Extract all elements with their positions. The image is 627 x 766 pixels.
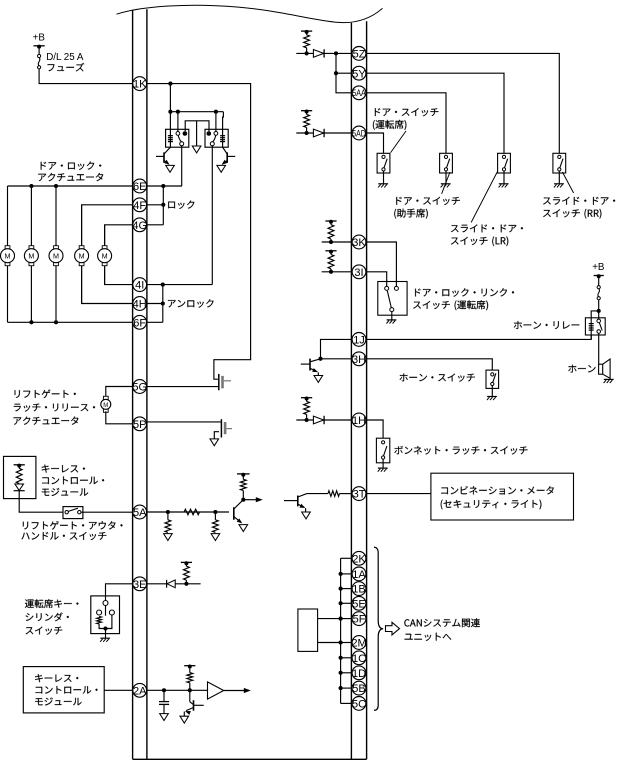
svg-text:5AA: 5AA xyxy=(352,88,366,98)
wire 5Z-5Y-5AA link xyxy=(336,53,352,92)
svg-text:6F: 6F xyxy=(133,317,146,329)
wire 5Y to slide door switch LR xyxy=(366,73,504,153)
wire center output of relays xyxy=(196,121,198,146)
switch S9 (bonnet latch) box xyxy=(376,438,389,463)
label (セキュリティ・ライト) xyxy=(441,500,542,510)
relay K2 contact open xyxy=(214,132,218,136)
relay K1 lever xyxy=(178,136,181,142)
connector 5P xyxy=(133,417,147,431)
motor M6 (liftgate latch release actuator) xyxy=(101,396,111,412)
motor M4 (door lock actuator) xyxy=(75,246,89,266)
motor M2 (door lock actuator) xyxy=(24,246,38,266)
diode D1 (in keyless box) xyxy=(14,484,25,491)
junction 5A at R4 xyxy=(213,510,217,514)
svg-text:M: M xyxy=(102,251,108,260)
switch S9 terminal bottom xyxy=(382,456,385,459)
wire 5AD to door switch driver xyxy=(366,133,383,153)
wire Q4 gate to ground xyxy=(214,432,219,439)
junction 4H link xyxy=(161,301,165,305)
junction relay rail at contact K1 xyxy=(176,110,180,114)
wire stub to 5C xyxy=(341,702,352,704)
wire to motor M3 top xyxy=(55,186,57,246)
label ドア・ロック・リンク・ xyxy=(415,288,514,296)
wire rail to K2 coil xyxy=(222,112,225,148)
svg-text:3K: 3K xyxy=(352,237,366,249)
svg-text:5Z: 5Z xyxy=(353,49,366,61)
junction CAN at 5E xyxy=(339,601,343,605)
resistor+diode network at 5AD xyxy=(296,110,351,138)
label スイッチ (key cyl) xyxy=(26,627,63,635)
label コンビネーション・メータ xyxy=(441,486,554,494)
motor M5 (door lock actuator) xyxy=(98,246,112,266)
transistor Q1 (relay K1 driver) xyxy=(156,147,170,165)
ground arrow below Q5 xyxy=(239,525,248,532)
wire 3E to key cylinder switch xyxy=(106,584,133,601)
svg-text:+B: +B xyxy=(592,262,605,273)
ground arrow below Q4 gate xyxy=(210,439,219,446)
module bottom edge xyxy=(133,758,367,760)
svg-text:2A: 2A xyxy=(133,685,147,697)
relay K3 coil xyxy=(589,322,594,340)
wire horn feed to coil xyxy=(591,311,599,322)
power terminal in keyless box xyxy=(14,464,25,468)
connector 1C xyxy=(352,651,366,665)
connector 3H xyxy=(352,352,366,366)
wire 4G row left xyxy=(105,225,133,245)
wire 4H row right xyxy=(147,303,163,305)
wire 5Z to slide door switch RR xyxy=(366,53,559,153)
horn speaker SP1 xyxy=(599,359,611,378)
switch S5 (slide door switch LR) xyxy=(498,153,511,187)
wire relay second rail xyxy=(185,121,209,132)
wire rail to K2 contact xyxy=(215,112,217,132)
ground arrow below Q6 xyxy=(180,716,189,723)
chassis ground below S8 xyxy=(487,397,497,401)
junction CAN at 1A xyxy=(339,572,343,576)
transistor Q3 (5G driver FET) xyxy=(219,374,231,390)
connector 5Y xyxy=(352,66,366,80)
wire relay K2 output to 4I xyxy=(211,146,213,285)
wire 4H row left xyxy=(82,266,133,303)
svg-text:4H: 4H xyxy=(133,299,147,311)
ground arrow below Q1 xyxy=(166,165,175,172)
relay K1 common terminal xyxy=(180,142,184,146)
svg-text:M: M xyxy=(53,251,59,260)
svg-text:5A: 5A xyxy=(133,507,147,519)
wire stub to 5F xyxy=(341,618,352,620)
label ホーン・スイッチ xyxy=(400,374,475,382)
wire stub to 2M xyxy=(341,642,352,644)
label ハンドル・スイッチ xyxy=(21,532,106,540)
resistor R3 (5A series) xyxy=(184,509,199,515)
connector 2K xyxy=(352,551,366,565)
svg-text:1C: 1C xyxy=(352,653,366,665)
relay K1 coil xyxy=(168,136,173,142)
switch S4 (door switch passenger) xyxy=(440,153,453,187)
wire 2A row right xyxy=(147,689,208,691)
wire stub to 1A xyxy=(341,573,352,575)
label ロック xyxy=(168,201,194,209)
label CANシステム関連 xyxy=(404,618,480,627)
label コントロール・ (lower box) xyxy=(36,686,98,694)
label アンロック xyxy=(168,299,214,307)
label ドア・スイッチ (passenger) xyxy=(396,197,460,205)
resistor R4 (5A pulldown 2) xyxy=(213,512,219,532)
right module bus bar (right line) xyxy=(366,21,368,759)
junction 4I right branch xyxy=(161,283,165,287)
wire motor M4 bottom xyxy=(81,266,83,304)
connector 6E xyxy=(133,179,147,193)
relay K1 box xyxy=(166,129,189,147)
switch S2 terminal left xyxy=(97,610,102,615)
label ドア・スイッチ (driver) xyxy=(375,108,439,116)
label ドア・ロック・ xyxy=(41,162,102,170)
power terminal above R8 xyxy=(184,665,195,669)
connector 4F xyxy=(133,198,147,212)
motor M3 (door lock actuator) xyxy=(49,246,63,266)
right module bus bar (left line) xyxy=(350,23,352,760)
ground arrow below R2 xyxy=(164,534,173,541)
svg-text:3H: 3H xyxy=(352,354,366,366)
label ラッチ・リリース・ xyxy=(14,404,95,412)
connector 1A xyxy=(352,567,366,581)
junction relay rail at contact K2 xyxy=(214,110,218,114)
connector 1D xyxy=(352,666,366,680)
svg-text:5AD: 5AD xyxy=(352,128,366,138)
wire 4F row left xyxy=(82,205,133,245)
label スライド・ドア・ (LR) xyxy=(451,224,523,232)
svg-text:3I: 3I xyxy=(354,267,363,279)
wire horn fuse to relay xyxy=(598,300,600,319)
switch S8 terminal bottom xyxy=(491,382,494,385)
svg-text:M: M xyxy=(103,403,108,409)
resistor R2 (5A pulldown) xyxy=(165,512,171,532)
wire 4I row right xyxy=(147,284,213,286)
label アクチュエータ (liftgate) xyxy=(14,417,79,425)
svg-text:4I: 4I xyxy=(135,280,144,292)
relay K3 lever xyxy=(599,323,602,331)
svg-text:2K: 2K xyxy=(352,553,366,565)
svg-text:5B: 5B xyxy=(352,683,365,695)
power terminal above R7 xyxy=(181,561,192,565)
wire 5AA to door switch front xyxy=(366,93,446,154)
junction link at 5Z xyxy=(334,51,338,55)
label (助手席) xyxy=(394,209,428,219)
wire +B to fuse xyxy=(38,46,40,55)
wire S2 right leg xyxy=(106,615,112,629)
transistor Q4 (5P driver FET) xyxy=(221,419,232,437)
switch S8 lever xyxy=(493,373,496,382)
svg-text:5C: 5C xyxy=(352,699,366,711)
wire S7 to chassis ground xyxy=(391,312,393,320)
pointer line to S3 xyxy=(391,131,406,153)
power terminal above R5 xyxy=(237,473,250,477)
svg-text:5Y: 5Y xyxy=(352,68,366,80)
label (運転席) (driver) xyxy=(373,120,407,130)
switch S9 lever xyxy=(384,446,387,456)
connector 3I xyxy=(352,265,366,279)
wire 4I to 6F link xyxy=(162,285,164,323)
switch S1 terminal right xyxy=(78,511,81,514)
svg-text:1D: 1D xyxy=(352,668,366,680)
wire 5G row right xyxy=(147,386,219,388)
connector 6F xyxy=(133,315,147,329)
svg-text:3T: 3T xyxy=(353,489,366,501)
fuse label フューズ xyxy=(48,63,85,72)
switch S7 lever xyxy=(387,291,391,308)
wire U1 output arrow xyxy=(224,688,251,693)
switch S7 common terminal xyxy=(390,308,394,312)
transistor Q5 (5A input) xyxy=(234,500,244,524)
connector 4I xyxy=(133,278,147,292)
wire 5G row left xyxy=(106,387,133,398)
power +B terminal (horn) xyxy=(594,274,604,278)
connector 5Z xyxy=(352,47,366,61)
wire motor M3 bottom xyxy=(55,266,57,322)
junction 6F at motor2 xyxy=(29,320,33,324)
transistor Q8 (3T security light) xyxy=(284,494,307,512)
keyless control module box (upper) xyxy=(4,456,36,498)
label スライド・ドア・ (RR) xyxy=(543,197,615,205)
relay K1 contact closed xyxy=(183,131,188,136)
left module bus bar (left line) xyxy=(132,11,134,760)
wire 1K branch down to relay coil K1 xyxy=(169,84,171,148)
label コントロール・ (upper box) xyxy=(42,477,104,485)
label モジュール (upper box) xyxy=(42,488,88,496)
svg-text:1J: 1J xyxy=(353,335,365,347)
resistor R1 (in keyless box) xyxy=(16,466,22,484)
pointer line to S6 xyxy=(562,172,573,193)
transistor Q6 (2A clamp) xyxy=(184,690,203,716)
connector 2A xyxy=(133,683,147,697)
switch S9 terminal top xyxy=(382,441,385,444)
wire 4G row right xyxy=(147,224,164,226)
wire relay top rail xyxy=(170,111,223,113)
switch S2 common terminal xyxy=(103,601,108,606)
svg-text:+B: +B xyxy=(33,32,46,43)
connector 3K xyxy=(352,235,366,249)
ground arrow below relay rail xyxy=(192,146,201,153)
wire link to 5Y xyxy=(336,72,352,74)
wire 6E row right xyxy=(147,185,182,187)
capacitor C1 xyxy=(159,690,169,713)
svg-text:4F: 4F xyxy=(133,200,146,212)
junction CAN at 1B xyxy=(339,587,343,591)
left module bus bar (right line) xyxy=(146,9,148,759)
label シリンダ・ xyxy=(26,613,69,622)
label ホーン・リレー xyxy=(514,321,579,329)
label アクチュエータ xyxy=(38,173,103,181)
label スイッチ (LR) xyxy=(451,236,508,246)
wire 5A row right xyxy=(147,511,229,513)
resistor R6 (in key switch) xyxy=(97,616,106,628)
wire CAN common vertical xyxy=(340,558,342,703)
wire S8 to chassis ground xyxy=(491,386,493,397)
combination meter box xyxy=(431,473,574,520)
switch S8 (horn switch) box xyxy=(486,370,499,388)
wire torn-edge curve (harness continuation) xyxy=(117,5,383,22)
connector 2M xyxy=(351,636,366,650)
power +B label (horn) xyxy=(592,262,605,273)
connector 5C xyxy=(352,697,366,711)
switch S3 (door switch driver) xyxy=(377,153,390,187)
wire to motor M5 top xyxy=(104,225,106,246)
connector 1B xyxy=(352,582,366,596)
transistor Q7 (horn drive) xyxy=(301,359,321,376)
chassis ground below S2 xyxy=(100,638,110,642)
junction S2 output xyxy=(103,626,107,630)
connector 5F xyxy=(352,612,366,626)
svg-text:1K: 1K xyxy=(133,79,147,91)
relay K3 (horn relay) box xyxy=(585,318,605,335)
wire stub to 5B xyxy=(341,687,352,689)
junction 5A at R2 xyxy=(166,510,170,514)
relay K3 common terminal xyxy=(597,330,601,334)
switch S1 terminal left xyxy=(65,511,68,514)
wire +B to horn fuse xyxy=(598,276,600,286)
connector 4G xyxy=(132,218,147,232)
junction 6E at motor3 xyxy=(54,184,58,188)
junction 6E at motor2 xyxy=(29,184,33,188)
wire 1K feed to relays and 5G driver gate xyxy=(147,84,251,380)
connector 5AA xyxy=(352,86,366,100)
junction on 1K line xyxy=(168,82,172,86)
wire to motor M4 top xyxy=(81,205,83,246)
wire keyless box to handle switch xyxy=(19,491,63,513)
wire motor M1 bottom xyxy=(7,266,9,322)
open arrow to CAN units xyxy=(386,622,400,635)
chassis ground below horn xyxy=(604,379,614,383)
connector 5G xyxy=(132,380,147,394)
junction 2A at C1 xyxy=(162,688,166,692)
chassis ground below S7 xyxy=(386,320,396,324)
wire 3E row right xyxy=(147,583,201,585)
wire 3K to link switch xyxy=(366,242,396,286)
junction CAN at 1D xyxy=(339,671,343,675)
relay K2 box xyxy=(205,129,228,147)
svg-text:D/L 25 A: D/L 25 A xyxy=(46,52,84,63)
switch S7 terminal left xyxy=(385,286,389,290)
junction Q5 collector xyxy=(241,498,245,502)
svg-text:1B: 1B xyxy=(352,584,365,596)
chassis ground below S9 xyxy=(378,468,388,472)
svg-text:1A: 1A xyxy=(352,569,366,581)
connector 1H xyxy=(352,413,366,427)
wire fuse to 1K xyxy=(39,69,133,84)
connector 5E xyxy=(352,596,366,610)
wire Q8 to R9 xyxy=(307,493,328,495)
transistor Q2 (relay K2 driver) xyxy=(222,147,236,165)
ground arrow below Q2 xyxy=(217,165,226,172)
keyless control module box (lower) xyxy=(23,667,104,713)
connector 5B xyxy=(352,681,366,695)
junction CAN at 1C xyxy=(339,656,343,660)
wire rail to K1 contact xyxy=(177,112,179,132)
wire stub to 5E xyxy=(341,602,352,604)
relay K2 common terminal xyxy=(210,142,214,146)
label ボンネット・ラッチ・スイッチ xyxy=(394,446,527,455)
ground arrow below C1 xyxy=(160,714,169,721)
relay K1 contact open xyxy=(176,132,180,136)
wire handle switch to 5A xyxy=(81,511,133,513)
buffer U1 (2A input) xyxy=(208,682,224,699)
connector 1J xyxy=(352,333,366,347)
label ユニットへ xyxy=(405,633,452,641)
resistor network at 3K xyxy=(322,220,352,244)
resistor R5 (Q5 pullup) xyxy=(240,476,246,500)
svg-text:6E: 6E xyxy=(133,181,146,193)
connector 3T xyxy=(352,487,366,501)
wire stub to 1C xyxy=(341,657,352,659)
wire 6F row right xyxy=(147,321,163,323)
relay K3 contact top xyxy=(597,319,601,323)
wire to motor M1 top xyxy=(7,186,9,246)
wire stub to 2K xyxy=(341,557,352,559)
switch S8 terminal top xyxy=(491,373,494,376)
ground arrow below Q8 xyxy=(302,512,311,519)
wire 3H row left xyxy=(321,358,352,360)
wire motor M2 bottom xyxy=(30,266,32,322)
switch S7 terminal right xyxy=(394,286,398,290)
connector 1K xyxy=(133,77,147,91)
switch S7 (door lock link) box xyxy=(378,282,407,316)
wire 1H to bonnet switch xyxy=(366,420,383,438)
wire to motor M2 top xyxy=(30,186,32,246)
wire S9 to chassis ground xyxy=(382,459,384,468)
wire 4F row right xyxy=(147,204,164,206)
wire S2 to chassis ground xyxy=(105,629,107,638)
junction link at 5Y xyxy=(334,71,338,75)
resistor network at 3I xyxy=(322,250,352,274)
pointer line to S5 xyxy=(471,172,497,222)
wire CAN box to 5F row xyxy=(318,618,341,620)
junction 2A at R8 xyxy=(188,688,192,692)
junction horn feed xyxy=(597,309,601,313)
wire keyless box to 2A xyxy=(104,689,133,691)
svg-text:3E: 3E xyxy=(133,579,146,591)
wire 4I row left xyxy=(105,266,133,284)
junction relay rail at coil K1 xyxy=(168,110,172,114)
switch S2 terminal right xyxy=(109,610,114,615)
resistor R8 (2A pullup) xyxy=(187,668,193,691)
relay K2 coil xyxy=(220,136,225,142)
label キーレス・ (lower box) xyxy=(35,674,78,682)
wire 6F row left xyxy=(8,321,133,323)
junction CAN at 5B xyxy=(339,686,343,690)
wire 3I to link switch xyxy=(366,272,386,287)
wire 3T to combination meter xyxy=(366,493,431,495)
power +B label (top-left) xyxy=(33,32,46,43)
svg-text:5G: 5G xyxy=(132,382,147,394)
junction CAN at 2M xyxy=(339,640,343,644)
svg-text:4G: 4G xyxy=(132,220,147,232)
label キーレス・ (upper box) xyxy=(42,465,85,473)
connector 4H xyxy=(133,297,147,311)
fuse label D/L 25 A xyxy=(46,52,84,63)
resistor+diode network at 1H xyxy=(296,397,351,425)
ground arrow below R4 xyxy=(211,534,220,541)
svg-text:M: M xyxy=(79,251,85,260)
resistor+diode network at 5Z xyxy=(296,30,351,58)
wire relay K3 to horn xyxy=(598,333,600,364)
resistor R7 (3E pullup) xyxy=(184,564,190,584)
svg-text:5E: 5E xyxy=(352,598,365,610)
label モジュール (lower box) xyxy=(35,698,81,706)
wire CAN box to 2M row xyxy=(318,642,341,644)
wire 3H to horn switch xyxy=(366,359,492,370)
wire stub to 1B xyxy=(341,588,352,590)
wire motor M6 to 5P xyxy=(106,411,133,424)
